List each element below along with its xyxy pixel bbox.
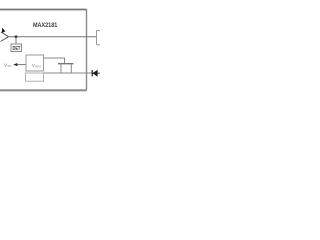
- svg-text:CC: CC: [8, 64, 12, 68]
- svg-text:REG: REG: [35, 65, 41, 69]
- svg-text:MAX2181: MAX2181: [33, 22, 58, 29]
- svg-text:DET: DET: [13, 46, 21, 52]
